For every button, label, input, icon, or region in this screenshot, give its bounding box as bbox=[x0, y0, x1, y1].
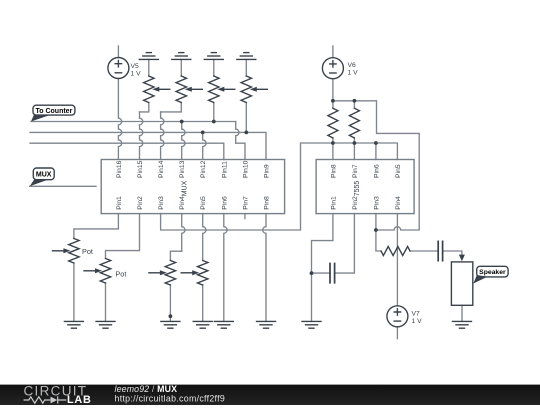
svg-text:Pin5: Pin5 bbox=[395, 164, 402, 178]
svg-text:Pin12: Pin12 bbox=[200, 160, 207, 178]
svg-text:Pot: Pot bbox=[115, 270, 126, 279]
svg-text:V6: V6 bbox=[348, 62, 356, 69]
svg-text:1 V: 1 V bbox=[348, 69, 359, 76]
svg-text:1 V: 1 V bbox=[131, 71, 142, 78]
svg-text:Pin9: Pin9 bbox=[264, 164, 271, 178]
svg-text:To Counter: To Counter bbox=[35, 108, 72, 115]
svg-text:Pin4: Pin4 bbox=[179, 196, 186, 210]
svg-text:Pin3: Pin3 bbox=[373, 196, 380, 210]
svg-text:Pot: Pot bbox=[82, 247, 93, 256]
svg-text:Speaker: Speaker bbox=[479, 269, 506, 276]
svg-text:Pin5: Pin5 bbox=[200, 196, 207, 210]
svg-text:Pin2: Pin2 bbox=[352, 196, 359, 210]
svg-text:Pin1: Pin1 bbox=[116, 196, 123, 210]
svg-text:Pin11: Pin11 bbox=[221, 161, 228, 178]
svg-text:Pin6: Pin6 bbox=[221, 196, 228, 210]
svg-text:Pin10: Pin10 bbox=[242, 160, 249, 178]
svg-text:Pin13: Pin13 bbox=[179, 160, 186, 178]
svg-text:V5: V5 bbox=[131, 63, 139, 70]
svg-text:Pin16: Pin16 bbox=[116, 160, 123, 178]
svg-text:Pin8: Pin8 bbox=[264, 196, 271, 210]
svg-text:Pin8: Pin8 bbox=[330, 164, 337, 178]
svg-text:Pin15: Pin15 bbox=[137, 160, 144, 178]
svg-text:Pin7: Pin7 bbox=[242, 196, 249, 210]
svg-text:Pin7: Pin7 bbox=[352, 164, 359, 178]
svg-text:Pin2: Pin2 bbox=[137, 196, 144, 210]
svg-text:LAB: LAB bbox=[67, 394, 92, 405]
svg-text:7555: 7555 bbox=[354, 181, 361, 197]
svg-text:MUX: MUX bbox=[182, 180, 189, 196]
svg-text:MUX: MUX bbox=[36, 172, 52, 179]
svg-text:1 V: 1 V bbox=[412, 318, 423, 325]
svg-text:V7: V7 bbox=[412, 311, 420, 318]
svg-text:Pin3: Pin3 bbox=[158, 196, 165, 210]
svg-text:Pin14: Pin14 bbox=[158, 160, 165, 178]
svg-text:Pin6: Pin6 bbox=[373, 164, 380, 178]
svg-text:Pin4: Pin4 bbox=[395, 196, 402, 210]
svg-text:http://circuitlab.com/cff2ff9: http://circuitlab.com/cff2ff9 bbox=[115, 393, 226, 403]
svg-text:Pin1: Pin1 bbox=[330, 196, 337, 210]
